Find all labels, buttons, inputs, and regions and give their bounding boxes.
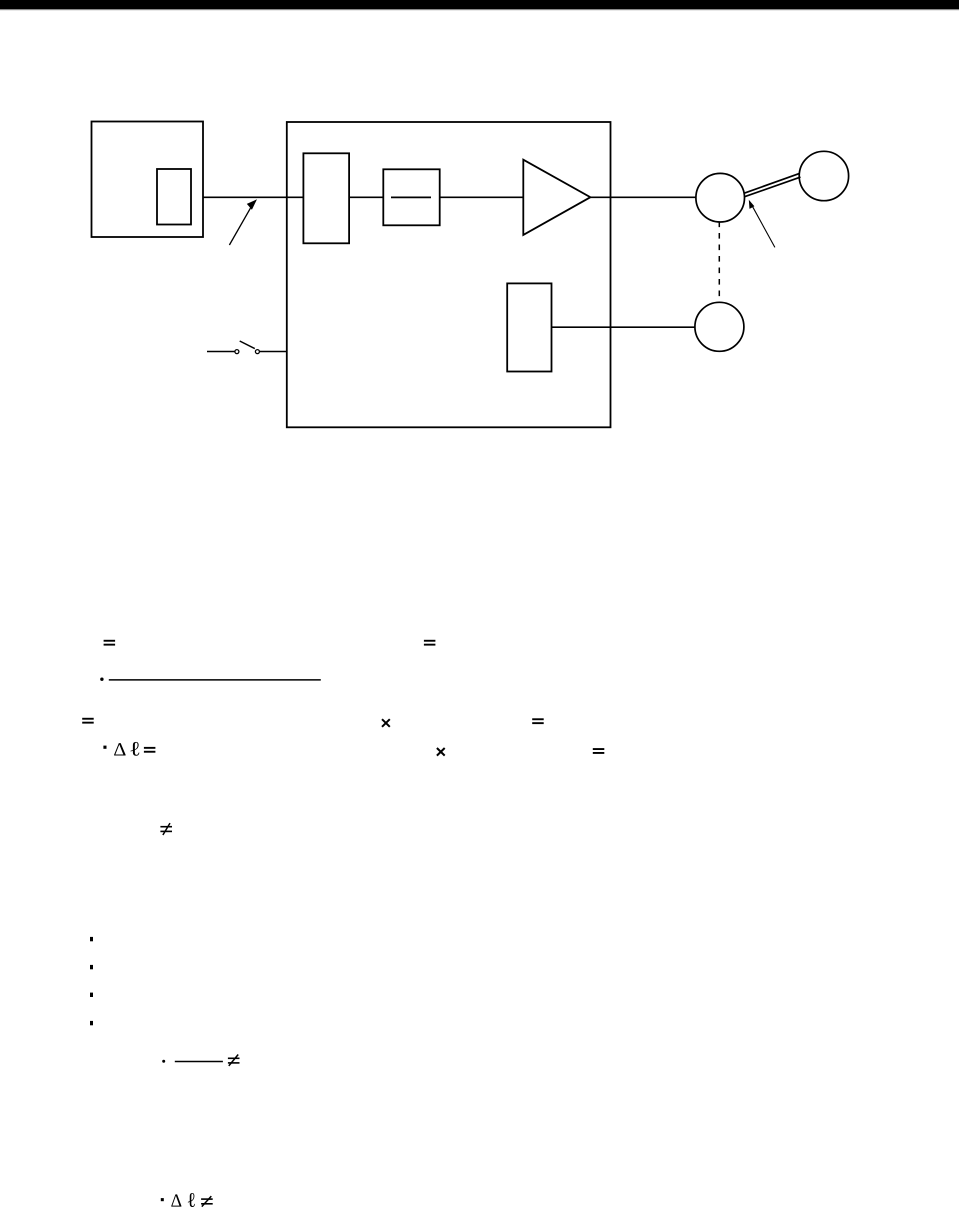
delta symbol row4 bbox=[114, 743, 126, 755]
connector: output socket bbox=[696, 173, 745, 222]
block: signal source box bbox=[92, 122, 204, 238]
wire: input stage to filter bbox=[349, 196, 383, 198]
amplifier A1 bbox=[523, 160, 590, 235]
script ell row7 bbox=[188, 1193, 195, 1207]
fraction bar row2 bbox=[109, 679, 321, 681]
square bullet list2 bbox=[90, 965, 93, 969]
block: aux stage bbox=[507, 283, 551, 371]
script ell row4 bbox=[131, 742, 140, 756]
square bullet list3 bbox=[90, 993, 93, 997]
square bullet row4 bbox=[103, 746, 106, 749]
block: source inner unit bbox=[157, 169, 191, 225]
equals symbol eq5 bbox=[144, 747, 156, 753]
wire: amplifier output bbox=[590, 196, 696, 198]
not-equal symbol neq3 bbox=[201, 1196, 213, 1207]
square bullet list4 bbox=[90, 1021, 93, 1025]
double line: plug link bbox=[744, 173, 800, 196]
filter symbol dash bbox=[391, 196, 431, 198]
square bullet row7 bbox=[161, 1198, 164, 1201]
connector: aux socket bbox=[695, 302, 744, 351]
equals symbol eq2 bbox=[424, 640, 436, 646]
square bullet list1 bbox=[90, 937, 93, 941]
connector: plug bbox=[799, 151, 848, 200]
bullet dot row2 bbox=[100, 678, 103, 681]
times symbol x2 bbox=[437, 748, 445, 756]
equals symbol eq1 bbox=[104, 640, 116, 646]
not-equal symbol neq1 bbox=[160, 823, 172, 835]
block: filter stage bbox=[383, 169, 439, 225]
times symbol x1 bbox=[382, 719, 390, 727]
fraction bar row6 bbox=[175, 1061, 223, 1063]
equals symbol eq3 bbox=[82, 718, 94, 724]
equals symbol eq6 bbox=[593, 748, 605, 754]
switch S1 bbox=[207, 341, 287, 354]
arrow: input wire callout bbox=[229, 199, 257, 245]
block: main unit enclosure bbox=[287, 122, 611, 427]
not-equal symbol neq2 bbox=[228, 1055, 240, 1066]
bullet dot row6 bbox=[162, 1060, 165, 1063]
wire: source to main unit input bbox=[203, 196, 303, 198]
wire: aux stage to aux socket bbox=[552, 326, 696, 328]
delta symbol row7 bbox=[171, 1194, 181, 1206]
arrow: plug junction callout bbox=[749, 200, 775, 248]
header bar bbox=[0, 0, 959, 9]
wire: filter to amplifier bbox=[440, 196, 524, 198]
equals symbol eq4 bbox=[532, 718, 544, 724]
dashed link: socket pair bbox=[718, 222, 720, 303]
block: input stage bbox=[303, 153, 349, 243]
